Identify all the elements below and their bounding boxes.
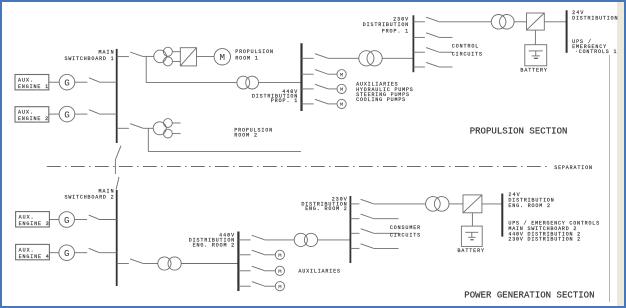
bus 440V DISTRIBUTION PROP. 1 [300, 43, 302, 111]
breaker CB-G2 [75, 110, 117, 114]
frequency converter U1 [180, 48, 196, 66]
wire to pump motor M2 [328, 73, 337, 75]
wire to pump motor M3 [328, 88, 337, 90]
breaker CB control circuit 3 [413, 62, 438, 67]
wire control circuit 2 [439, 51, 453, 53]
breaker CB 230V to UPS chain [413, 17, 438, 22]
rectifier U2 [527, 13, 545, 30]
wire G1 to breaker [49, 81, 59, 83]
wire to transformer T8 [373, 203, 426, 205]
label AUXILIARIES eng room 2 [298, 269, 340, 275]
node MAIN SWITCHBOARD 2 label [65, 189, 114, 201]
bus tie link crossing separation [115, 146, 121, 190]
breaker CB 440V to transformer T4 [302, 54, 328, 59]
transformer T4 [359, 51, 382, 66]
aux engine 1 box [15, 75, 49, 90]
wire G4 to breaker [49, 252, 59, 254]
wire U3 to 24V bus 2 [482, 203, 502, 205]
wire control circuit 3 [439, 66, 453, 68]
generator G3 [59, 212, 75, 228]
bus 24V DISTRIBUTION 1 [566, 10, 568, 53]
propulsion motor M1 [214, 49, 230, 65]
wire U1 to motor M1 [197, 56, 215, 58]
label POWER GENERATION SECTION [464, 291, 594, 301]
beige window edge strip [617, 2, 625, 306]
breaker CB eng room pump 1 [238, 250, 264, 255]
label 230V DISTRIBUTION PROP. 1 [363, 16, 408, 34]
wire consumer circuit 1 [373, 218, 398, 220]
gray page edge line [609, 55, 610, 302]
generator G1 [59, 74, 75, 90]
label 440V DISTRIBUTION PROP. 1 [252, 89, 297, 104]
wire junction down to 440V feeder [146, 57, 237, 83]
breaker CB propulsion room 1 [117, 52, 143, 57]
label 440V DISTRIBUTION ENG. ROOM 2 [189, 232, 234, 248]
transformer T2 [237, 76, 259, 89]
separation line [47, 166, 551, 168]
node MAIN SWITCHBOARD 1 label [65, 50, 114, 62]
aux engine 3 box [16, 212, 50, 227]
label PROPULSION ROOM 2 [234, 128, 272, 139]
label UPS EMERGENCY CONTROLS 1 [572, 39, 616, 55]
wire T4 to 230V bus 1 [382, 57, 413, 59]
breaker CB consumer circuit 3 [350, 244, 373, 249]
pump motor M4 [337, 99, 346, 108]
label BATTERY 2 [458, 248, 485, 254]
generator G2 [59, 106, 75, 122]
wire to pump motor M4 [328, 103, 337, 105]
wire to pump motor M6 [264, 270, 275, 272]
breaker CB consumer circuit 1 [350, 214, 373, 219]
wire U3 to battery 2 [471, 213, 473, 226]
breaker CB aux pump 1 [302, 70, 328, 75]
breaker CB 230V-2 to UPS chain [350, 199, 373, 204]
wire control circuit 1 [439, 36, 453, 38]
bus 24V DISTRIBUTION ENG. ROOM 2 [501, 194, 503, 237]
wire T7 to 230V bus 2 [318, 239, 351, 241]
wire propulsion room 2 junction to lower feeder [148, 128, 301, 151]
aux engine 4 box [16, 244, 50, 259]
pump motor M6 [275, 266, 284, 275]
wire consumer circuit 3 [373, 247, 398, 249]
wire to transformer T5 [439, 21, 492, 23]
wire to transformer T4 [328, 57, 359, 59]
label SEPARATION [554, 165, 592, 171]
transformer T7 [294, 233, 317, 246]
breaker CB consumer circuit 2 [350, 229, 373, 234]
wire to transformer T6 [143, 263, 158, 265]
label UPS EMERGENCY CONTROLS list [508, 221, 599, 243]
wire T5 to rectifier U2 [514, 21, 526, 23]
label AUXILIARIES pumps [356, 82, 413, 103]
transformer T8 [426, 197, 449, 212]
label 24V DISTRIBUTION [572, 10, 617, 21]
breaker CB control circuit 1 [413, 33, 438, 38]
transformer T6 [158, 257, 181, 270]
label BATTERY 1 [520, 67, 547, 73]
pump motor M2 [337, 70, 346, 79]
wire to pump motor M5 [264, 254, 275, 256]
breaker CB switchboard 2 feeder [117, 259, 143, 264]
label CONSUMER CIRCUITS [390, 225, 420, 238]
bus 230V DISTRIBUTION PROP. 1 [412, 15, 414, 72]
breaker CB-G4 [75, 248, 117, 252]
transformer T1 three-winding [154, 47, 173, 66]
wire T8 to rectifier U3 [449, 203, 463, 205]
label 230V DISTRIBUTION ENG. ROOM 2 [301, 197, 346, 212]
aux engine 2 box [15, 107, 49, 122]
bus 440V DISTRIBUTION ENG. ROOM 2 [237, 232, 239, 292]
battery 1 [525, 45, 547, 66]
bus MAIN SWITCHBOARD 1 [116, 49, 118, 143]
transformer T3 three-winding [153, 119, 172, 138]
breaker CB aux pump 3 [302, 99, 328, 104]
label PROPULSION SECTION [470, 126, 568, 136]
wire T1 secondaries to converter U1 [172, 52, 180, 62]
breaker CB-G1 [75, 78, 117, 82]
breaker CB aux pump 2 [302, 84, 328, 89]
generator G4 [59, 245, 75, 261]
wire G2 to breaker [49, 113, 59, 115]
transformer T5 [491, 14, 514, 29]
label 24V DISTRIBUTION ENG. ROOM 2 [508, 192, 553, 209]
breaker CB 440V-2 to transformer T7 [238, 235, 264, 240]
bus 230V DISTRIBUTION ENG. ROOM 2 [349, 196, 351, 263]
wire to transformer T7 [264, 239, 294, 241]
wire breaker to transformer T3 [143, 127, 154, 129]
wire G3 to breaker [49, 219, 59, 221]
breaker CB eng room pump 2 [238, 266, 264, 271]
stub wires T3 secondaries [172, 123, 180, 134]
label PROPULSION ROOM 1 [235, 49, 273, 61]
breaker CB eng room pump 3 [238, 282, 264, 287]
bus MAIN SWITCHBOARD 2 [116, 190, 118, 286]
wire consumer circuit 2 [373, 232, 398, 234]
wire U2 to 24V bus 1 [544, 21, 566, 23]
breaker CB control circuit 2 [413, 48, 438, 53]
rectifier U3 [463, 195, 482, 213]
battery 2 [461, 226, 482, 246]
breaker CB-G3 [75, 215, 117, 219]
label CONTROL CIRCUITS [452, 44, 482, 58]
pump motor M5 [275, 250, 284, 259]
wire U2 to battery 1 [534, 30, 536, 45]
pump motor M3 [337, 84, 346, 93]
pump motor M7 [275, 282, 284, 291]
wire breaker to transformer T1 [143, 55, 154, 57]
wire to pump motor M7 [264, 285, 275, 287]
wire T6 to 440V bus 2 [181, 263, 237, 265]
breaker CB propulsion room 2 [117, 124, 143, 129]
wire T2 to 440V bus 1 [259, 82, 302, 84]
